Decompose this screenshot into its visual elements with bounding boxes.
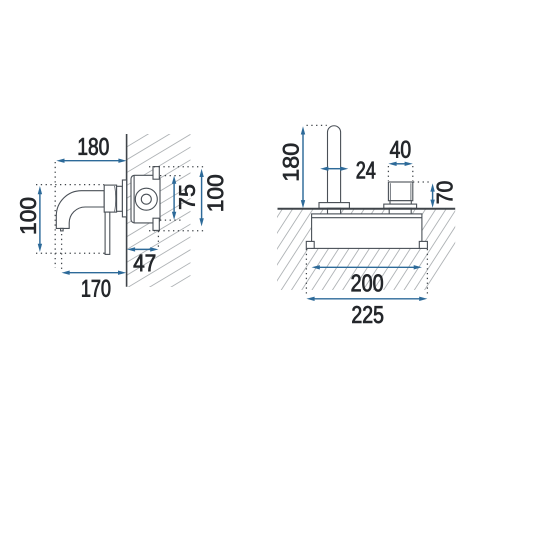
wall surface line [126,134,128,287]
label 200 [352,274,383,291]
bottom mounting flange [153,218,159,230]
sleeve [117,186,123,211]
label 180 (right view, rotated) [283,144,299,180]
extension line (dotted) flange right [157,231,159,248]
extension line (dotted) spout outlet vertical [61,234,63,269]
extension line (dotted) handle bottom [36,252,105,254]
label 70 (rotated) [437,182,453,204]
extension line (dotted) body top [160,175,181,177]
dimension line 180 spout reach [56,159,126,163]
riser base flange [319,203,349,209]
dimension line 100 right [199,169,203,227]
label 40 [390,141,410,158]
countertop section hatching (right view) [275,0,457,548]
extension dotted riser top [307,124,327,126]
dimension line 180 riser height [301,126,305,208]
countertop surface line [278,208,456,210]
dimension line 225 overall width [306,297,427,301]
label 180 (left view) [79,138,109,155]
aerator base [384,204,417,208]
dimension line 75 [172,176,176,220]
label 225 [352,306,383,323]
extension line (dotted) flange top [149,166,204,168]
handle lever [105,212,110,254]
dimension line 70 aerator height [430,183,434,207]
plate shading line [115,186,116,211]
dimension line 40 aerator dia [388,162,412,166]
extension line (dotted) spout tip vertical [54,162,56,268]
dimension line 200 body width [312,265,422,269]
aerator neck [390,201,411,204]
riser column (mixer control) [328,126,341,203]
aerator/handle body [388,182,412,201]
wall section hatching (left view) [125,43,193,328]
label 170 [82,280,110,297]
concealed body box [312,214,422,249]
dimension line 24 riser dia [320,167,348,171]
dimension line 170 [62,271,127,275]
valve cartridge circle [135,188,157,210]
label 100 (left view, rotated) [20,198,36,233]
spout (side view) [56,191,104,229]
extension dotted feet verticals [305,249,307,296]
left mounting foot [306,241,314,248]
aerator shank [389,208,411,214]
extension line (dotted) right foot [426,249,428,296]
trim ring [122,180,126,217]
extension line (dotted) flange bottom [149,230,204,232]
extension line (dotted) plate top [36,184,104,186]
riser shank [328,208,341,214]
valve body [131,175,160,223]
right mounting foot [419,241,427,248]
wall plate of spout [104,185,116,212]
label 47 [134,255,156,272]
extension dotted aerator sides [387,166,389,181]
label 75 (rotated) [179,185,195,209]
label 100 (right of valve, rotated) [207,175,223,210]
dimension line 47 [127,247,158,251]
label 24 [357,162,376,179]
extension dotted aerator top to 70 [413,181,432,183]
dimension line 100 left [38,186,42,252]
spout aerator tip [61,228,64,231]
top mounting flange [153,167,159,180]
extension line (dotted) body bottom [160,219,181,221]
